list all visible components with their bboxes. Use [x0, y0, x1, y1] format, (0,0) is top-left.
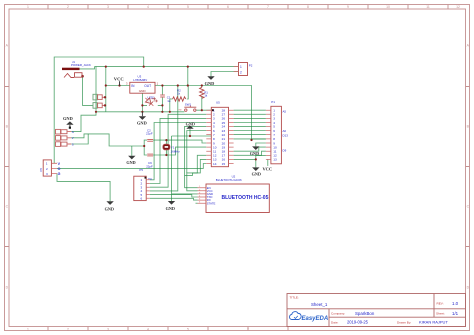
svg-text:BLUETOOTH HC06: BLUETOOTH HC06 — [216, 178, 242, 182]
connector J1 POWER_JACK — [62, 60, 91, 78]
svg-text:4: 4 — [147, 328, 149, 332]
svg-text:VCC: VCC — [263, 166, 273, 171]
svg-text:OUT: OUT — [144, 84, 151, 88]
ground (left, servo) — [63, 116, 74, 129]
svg-text:GND: GND — [126, 160, 135, 165]
node VCC drop to P1 pin8 — [250, 139, 252, 141]
wire: U3 GND pin down — [141, 93, 143, 112]
wire: VCC bend to P1 pin8 — [252, 139, 266, 140]
EasyEDA logo — [290, 312, 329, 322]
wire: reset row SW1 to U5 pin1 — [196, 96, 211, 110]
node crystal top — [165, 139, 167, 141]
connector P1 — [266, 100, 288, 164]
wire: caps node to C9 branch — [144, 146, 166, 155]
svg-text:Date:: Date: — [331, 321, 339, 325]
svg-text:13: 13 — [273, 158, 277, 162]
svg-text:15: 15 — [222, 162, 226, 166]
svg-text:P2: P2 — [249, 64, 253, 68]
node jack/main junction x105.8 — [105, 66, 107, 68]
ground (P2) — [205, 76, 215, 86]
svg-text:GND: GND — [250, 151, 259, 156]
svg-text:7: 7 — [267, 5, 269, 9]
svg-text:P6: P6 — [39, 168, 43, 172]
svg-text:TITLE:: TITLE: — [290, 296, 299, 300]
crystal Y1 16MHz — [163, 144, 180, 153]
svg-text:5: 5 — [187, 328, 189, 332]
node crystal bottom — [165, 154, 167, 156]
node GND-up stem / U5 row — [189, 135, 191, 137]
node jack sleeve pin — [81, 75, 84, 78]
svg-text:P5: P5 — [139, 168, 143, 172]
svg-text:Sheet:: Sheet: — [436, 312, 445, 316]
capacitor C5 — [93, 103, 104, 109]
wire: servo S row — [71, 134, 88, 144]
svg-text:Drawn By:: Drawn By: — [397, 321, 411, 325]
wire: BT TXD to P5 pin5 — [150, 195, 198, 197]
VCC netflag (main) — [114, 77, 124, 86]
wire: U5 pin12 hook to BT VCC — [187, 155, 207, 191]
wire: P5 pin2 up to U5 pin3 — [150, 118, 207, 183]
svg-text:8: 8 — [307, 5, 309, 9]
node VCC netflag junction — [118, 84, 120, 86]
svg-text:4: 4 — [147, 5, 149, 9]
node GND2 / U5 pin16 — [255, 158, 257, 160]
node C4 right terminal — [104, 96, 106, 98]
wire: vertical x105.8 to caps — [105, 67, 107, 112]
svg-text:1u: 1u — [167, 99, 171, 103]
wire: P6 pin3 to GND — [57, 174, 110, 202]
ground (crystal caps) — [126, 156, 135, 165]
svg-text:S: S — [72, 142, 74, 146]
svg-text:P1: P1 — [271, 100, 275, 104]
wire: jack output to main rail — [80, 67, 95, 69]
svg-text:1.0: 1.0 — [452, 301, 459, 306]
svg-text:V: V — [72, 136, 74, 140]
svg-text:STATE: STATE — [207, 201, 216, 205]
wire: U3 OUT rail to bend at P1 — [155, 86, 252, 141]
pushbutton SW1 — [179, 102, 197, 111]
wire: P5 pin3 up to U5 pin2 — [150, 114, 207, 187]
wire: P5 pin1 up to U5 pin4 — [150, 123, 207, 180]
svg-text:VCC: VCC — [114, 77, 124, 82]
wire: P1 pin13 VCC stem — [267, 159, 269, 166]
ground (mid-bottom, BT) — [166, 201, 176, 211]
wire: crystal bottom to U5 pin10 — [166, 147, 206, 155]
wire: vertical x96 jack branch — [71, 67, 96, 132]
wire: U5 pin6 vertical branch — [187, 131, 207, 173]
node ground rail / U3 GND — [141, 111, 143, 113]
capacitor C1 — [160, 95, 171, 103]
ground (up-pointing, U5 left) — [186, 122, 195, 129]
svg-text:Sheet_1: Sheet_1 — [311, 302, 328, 307]
svg-text:O: O — [58, 167, 61, 171]
wire: C1 leads — [161, 86, 163, 112]
wire: U5 pin17 to P1 pin11 — [234, 151, 266, 155]
svg-text:14: 14 — [213, 162, 217, 166]
connector P6 — [39, 160, 61, 176]
svg-text:5: 5 — [187, 5, 189, 9]
svg-text:L7805ABV: L7805ABV — [133, 78, 147, 82]
wire: servo V row — [71, 134, 144, 146]
capacitor C4 — [93, 94, 104, 100]
node reset row / R1 bottom — [201, 109, 203, 111]
svg-text:GND: GND — [139, 89, 147, 93]
svg-text:SparkBon: SparkBon — [355, 311, 375, 316]
svg-text:3: 3 — [107, 5, 109, 9]
svg-text:22pF: 22pF — [146, 132, 153, 136]
node VCC rail / P5 VCC vertical — [177, 84, 179, 86]
svg-text:2: 2 — [46, 167, 48, 171]
wire: P2 pin2 to GND — [211, 72, 239, 77]
svg-text:EasyEDA: EasyEDA — [302, 316, 329, 322]
svg-text:Dtr: Dtr — [148, 177, 152, 181]
svg-text:3: 3 — [107, 328, 109, 332]
capacitor C2 — [146, 128, 153, 141]
svg-text:10: 10 — [386, 5, 390, 9]
regulator U3 L7805ABV — [126, 75, 159, 94]
wire: P6 pin2 to U5 pin14 — [57, 164, 206, 169]
node VCC rail / input vertical — [105, 84, 107, 86]
svg-text:3: 3 — [46, 172, 48, 176]
svg-text:GND: GND — [205, 81, 215, 86]
svg-text:REV:: REV: — [437, 302, 444, 306]
wire: VCC rail left of U3 — [106, 85, 130, 87]
wire: GND net vertical to BT GND — [172, 136, 198, 201]
svg-text:16MHz: 16MHz — [171, 150, 181, 154]
svg-text:2019-09-25: 2019-09-25 — [347, 320, 369, 325]
wire: R2 right lead up to rail — [187, 86, 188, 100]
wire: P1 pin12 to GND2 — [256, 155, 266, 167]
node LED row left — [141, 104, 143, 106]
svg-text:U5: U5 — [216, 100, 220, 104]
svg-text:1: 1 — [27, 328, 29, 332]
svg-text:D9: D9 — [283, 149, 287, 153]
ground (P6 net) — [105, 201, 114, 211]
node LED row right / C1 bottom — [161, 104, 163, 106]
node main/BT-VCC junction x187.8 — [187, 66, 189, 68]
capacitor C9 — [146, 154, 153, 168]
svg-text:A5: A5 — [283, 109, 287, 113]
svg-text:1: 1 — [240, 65, 242, 69]
wire: U5 pin16 to GND2 node — [234, 158, 256, 160]
svg-text:11: 11 — [426, 5, 430, 9]
node ground rail / R2 left — [169, 111, 171, 113]
svg-text:1: 1 — [27, 5, 29, 9]
wire: GND-up symbol to U5 row y136 — [172, 129, 212, 136]
resistor R1 — [200, 87, 209, 98]
wire: P1 pin9 to GND — [256, 143, 266, 146]
svg-text:sw: sw — [179, 109, 182, 112]
svg-text:1: 1 — [46, 162, 48, 166]
svg-text:12: 12 — [456, 5, 460, 9]
wire: BT RX to P5 pin6 — [150, 198, 198, 200]
wire: caps node to C2 branch — [144, 140, 166, 146]
svg-text:GND: GND — [137, 121, 147, 126]
wire: crystal top to U5 pin9 — [166, 140, 206, 143]
node crystal caps left — [143, 145, 145, 147]
ground (P1 pin9) — [250, 146, 260, 156]
svg-text:1/1: 1/1 — [452, 311, 459, 316]
svg-text:BLUETOOTH HC-05: BLUETOOTH HC-05 — [222, 195, 269, 201]
svg-text:2: 2 — [67, 328, 69, 332]
wire: VCC loop from P6 pin1 — [54, 57, 144, 163]
svg-text:GND: GND — [166, 206, 175, 211]
svg-text:A6: A6 — [283, 129, 287, 133]
svg-text:GND: GND — [63, 116, 73, 121]
wire: BT STATE stub — [196, 202, 198, 204]
wire: U5-P1 bus pins 28-21 — [234, 110, 266, 139]
IC U5 ATmega — [206, 100, 233, 166]
node C5 right terminal — [104, 104, 106, 106]
svg-text:KIRAN RAJPUT: KIRAN RAJPUT — [419, 320, 448, 325]
svg-text:GND: GND — [105, 207, 114, 212]
svg-text:22pF: 22pF — [146, 164, 153, 168]
svg-text:GND: GND — [252, 171, 261, 176]
wire: jack sleeve down to C5 — [83, 76, 93, 105]
wire: GND branch from caps node — [131, 146, 133, 156]
svg-text:Company:: Company: — [331, 312, 345, 316]
node VCC rail / R1 top — [201, 84, 203, 86]
wire: ground rail y111.8 — [96, 111, 184, 113]
resistor R2 — [173, 89, 186, 102]
wire: U5 pin13 hook to BT EN — [185, 159, 207, 187]
node ground rail left tee — [95, 111, 97, 113]
wire: LED row — [142, 104, 162, 106]
svg-text:7: 7 — [247, 328, 249, 332]
wire: P5 VCC vertical x177.8 — [150, 86, 178, 191]
svg-text:G: G — [58, 172, 61, 176]
svg-text:2: 2 — [240, 70, 242, 74]
svg-text:POWER_JACK: POWER_JACK — [71, 63, 91, 67]
module U2 BLUETOOTH HC05 — [198, 174, 270, 212]
node VCC rail / BT VCC vertical — [187, 84, 189, 86]
wire: U5 pin5 vertical branch — [185, 126, 207, 175]
title block — [287, 294, 466, 327]
wire: x187.8 main to VCC rail — [187, 67, 189, 86]
svg-text:G: G — [72, 130, 74, 134]
wire: R1 top lead — [201, 86, 203, 88]
wire: crystal vertical — [165, 140, 167, 155]
ground (main, under U3) — [137, 112, 147, 126]
node ground rail / C1 vertical — [161, 111, 163, 113]
svg-text:6: 6 — [227, 5, 229, 9]
svg-text:D13: D13 — [283, 133, 289, 137]
connector P2 — [234, 63, 253, 76]
wire: R2 left lead down to rail — [170, 99, 173, 112]
svg-text:2: 2 — [67, 5, 69, 9]
VCC netflag (P1 pin13) — [263, 166, 273, 171]
connector P5 — [134, 168, 152, 201]
node VCC-loop junction x143.7 — [143, 66, 145, 68]
svg-text:9: 9 — [347, 5, 349, 9]
LED1 — [143, 93, 158, 108]
wire: U5 pin18 to P1 pin10 — [234, 147, 266, 151]
wire: main top rail to P2 pin1 — [95, 66, 239, 68]
node VCC rail / C1 top — [161, 84, 163, 86]
ground (P1 pin12) — [252, 167, 261, 176]
servo header P4 — [56, 129, 72, 146]
